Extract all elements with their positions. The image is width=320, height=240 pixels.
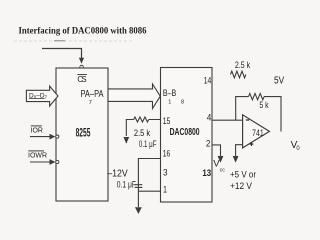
wire CS select (top) (42, 49, 82, 60)
supply arrow Vcc (218, 156, 224, 163)
resistor 2.5k (ref, top right) (231, 71, 246, 78)
svg-text:7: 7 (89, 100, 92, 106)
minus input mark (246, 119, 249, 121)
wire pin2 Vcc (212, 145, 221, 156)
svg-text:PA–PA: PA–PA (81, 89, 104, 100)
svg-text:3: 3 (163, 167, 168, 177)
svg-text:CS: CS (77, 75, 86, 84)
svg-text:14: 14 (204, 75, 212, 85)
svg-text:IOR: IOR (31, 128, 43, 135)
bubble IOR pin (56, 135, 59, 138)
svg-text:13: 13 (202, 168, 211, 179)
arrowhead IOWR (50, 159, 56, 165)
bubble IOWR pin (56, 160, 59, 163)
IC 8255 box (56, 68, 108, 201)
svg-text:2: 2 (206, 139, 211, 149)
arrowhead into CS (79, 58, 84, 64)
IC DAC0800 box (161, 68, 213, 203)
wire pin4 to op-amp (212, 119, 243, 121)
svg-text:DAC0800: DAC0800 (170, 127, 200, 138)
capacitor 0.1uF plates (135, 185, 143, 188)
svg-text:741: 741 (252, 128, 264, 138)
svg-text:–12V: –12V (107, 169, 128, 180)
supply arrow -12V (135, 207, 142, 214)
wire op-amp + input supply (236, 145, 243, 156)
svg-text:4: 4 (207, 113, 212, 123)
resistor 2.5k (pin 15) (134, 117, 149, 122)
svg-text:cc: cc (220, 168, 226, 174)
scan artifact under title (14, 40, 132, 42)
svg-text:5V: 5V (274, 75, 284, 86)
svg-text:5 k: 5 k (259, 100, 269, 110)
wire branch to pin1 (138, 190, 160, 192)
svg-text:B–B: B–B (163, 88, 176, 99)
arrowhead IOR (50, 134, 56, 140)
bubble at CS pin (80, 65, 84, 69)
svg-text:2.5 k: 2.5 k (134, 128, 151, 138)
ground arrow (2.5k) (123, 137, 129, 144)
bus arrow PA to DAC (108, 84, 160, 109)
svg-text:8: 8 (181, 100, 184, 106)
svg-text:0.1 μF: 0.1 μF (117, 179, 137, 189)
svg-text:+12 V: +12 V (230, 181, 252, 191)
svg-text:0.1 μF: 0.1 μF (139, 139, 157, 149)
plus input mark (250, 142, 254, 146)
svg-text:2.5 k: 2.5 k (235, 60, 251, 70)
wire feedback (236, 97, 281, 132)
resistor 5k (feedback) (249, 93, 265, 99)
svg-text:+5 V or: +5 V or (230, 170, 256, 180)
svg-text:IOWR: IOWR (28, 153, 47, 160)
svg-text:8255: 8255 (76, 127, 91, 139)
wire pin16 comp (138, 159, 160, 208)
bus arrow D0-D7 (26, 86, 58, 106)
svg-text:1: 1 (163, 185, 167, 195)
op-amp 741 (243, 115, 270, 148)
wire pin15 to resistor (126, 120, 160, 137)
svg-text:Interfacing of DAC0800 with 80: Interfacing of DAC0800 with 8086 (19, 26, 147, 36)
wire IOWR (30, 161, 50, 163)
svg-text:1: 1 (168, 100, 171, 106)
svg-text:15: 15 (163, 116, 171, 126)
wire IOR (30, 136, 50, 138)
supply arrow (+5V/+12V) (233, 156, 239, 163)
svg-text:16: 16 (163, 149, 171, 159)
